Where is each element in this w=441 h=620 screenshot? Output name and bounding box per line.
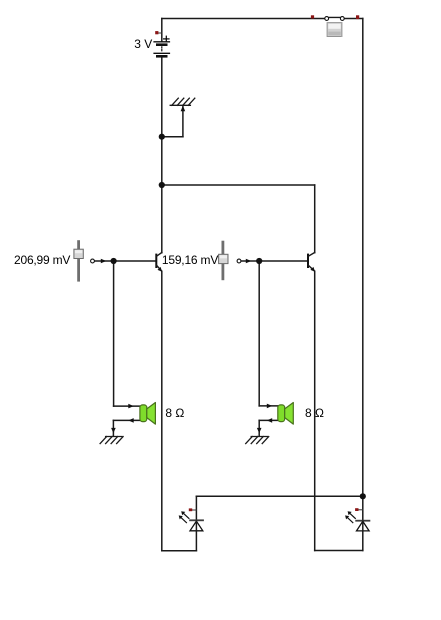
node junction collector split xyxy=(159,182,165,188)
LED D2 xyxy=(356,521,369,531)
svg-text:3 V: 3 V xyxy=(134,37,152,51)
arrow into speaker 2 xyxy=(267,404,272,409)
wire bottom left horizontal xyxy=(162,550,197,552)
wire LED1 anode lead xyxy=(195,531,197,551)
ground bottom middle xyxy=(246,437,269,444)
wire base 2 xyxy=(241,260,308,262)
wire emitter Q2 down xyxy=(314,271,316,550)
probe marker switch right xyxy=(356,15,359,19)
node junction base 1 xyxy=(111,258,117,264)
wire speaker1 ground stub xyxy=(112,420,114,435)
node junction bottom right xyxy=(360,493,366,499)
svg-text:8 Ω: 8 Ω xyxy=(165,406,184,420)
wire top rail left segment xyxy=(162,18,325,20)
wire top rail right segment xyxy=(345,18,363,20)
svg-text:8 Ω: 8 Ω xyxy=(305,406,324,420)
battery V1 probe marker xyxy=(155,31,162,34)
wire battery bottom lead xyxy=(161,58,163,186)
arrow out of speaker 2 xyxy=(267,418,272,423)
svg-text:206,99 mV: 206,99 mV xyxy=(14,253,70,267)
slider control 2 track xyxy=(221,242,224,279)
arrow on base wire 1 xyxy=(101,259,107,264)
LED D1 xyxy=(190,520,203,531)
LED D2 emission arrows xyxy=(345,511,355,522)
slider control 1 track xyxy=(77,242,80,281)
wire emitter Q1 down xyxy=(161,271,163,550)
wire speaker1 top terminal xyxy=(114,405,140,407)
wire speaker2 leg down xyxy=(258,261,260,406)
wire speaker1 bottom terminal xyxy=(113,419,139,421)
transistor Q1 xyxy=(156,253,162,272)
slider 1 output terminal xyxy=(91,259,95,263)
arrow on base wire 2 xyxy=(246,259,252,264)
node junction base 2 xyxy=(256,258,262,264)
wire ground branch vertical xyxy=(182,105,184,136)
wire collector rail Q1 xyxy=(161,185,163,253)
speaker LS2 driver xyxy=(278,405,285,422)
LED D1 probe marker xyxy=(189,508,197,511)
slider control 1 knob xyxy=(74,249,83,258)
speaker LS1 cone xyxy=(147,403,156,425)
node junction battery/ground xyxy=(159,134,165,140)
wire speaker2 ground stub xyxy=(258,420,260,435)
arrow into speaker 1 xyxy=(128,404,133,409)
transistor Q2 xyxy=(308,253,315,272)
wire right rail xyxy=(362,19,364,497)
wire speaker2 top terminal xyxy=(259,405,278,407)
wire battery top lead xyxy=(161,19,163,42)
wire collector drop Q2 xyxy=(314,185,316,253)
wire bottom right horizontal xyxy=(315,550,363,552)
wire cross link to Q2 xyxy=(162,184,315,186)
slider 2 output terminal xyxy=(237,259,241,263)
arrow to top ground xyxy=(181,106,186,112)
ground bottom left xyxy=(100,437,123,444)
wire bottom bus xyxy=(196,495,362,497)
LED D1 emission arrows xyxy=(179,511,189,522)
probe marker switch left xyxy=(311,15,314,18)
arrow to ground speaker 2 xyxy=(257,428,262,433)
arrow out of speaker 1 xyxy=(128,418,133,423)
battery V1 xyxy=(154,42,169,57)
svg-text:159,16 mV: 159,16 mV xyxy=(162,253,218,267)
switch S1 xyxy=(325,17,344,21)
wire LED1 cathode lead xyxy=(195,496,197,520)
wire base 1 xyxy=(95,260,157,262)
slider control 2 knob xyxy=(219,254,228,263)
arrow to ground speaker 1 xyxy=(111,428,116,433)
speaker LS2 cone xyxy=(285,403,294,425)
battery V1 plus sign xyxy=(164,36,169,41)
speaker LS1 driver xyxy=(140,405,147,422)
ground top (battery ground) xyxy=(170,98,195,105)
wire LED2 anode lead xyxy=(362,531,364,551)
wire speaker1 leg down xyxy=(113,261,115,406)
LED D2 probe marker xyxy=(355,508,363,511)
switch S1 pushbutton key xyxy=(327,23,342,37)
wire ground branch horizontal xyxy=(162,136,183,138)
wire LED2 cathode lead xyxy=(362,496,364,520)
wire speaker2 bottom terminal xyxy=(259,419,278,421)
